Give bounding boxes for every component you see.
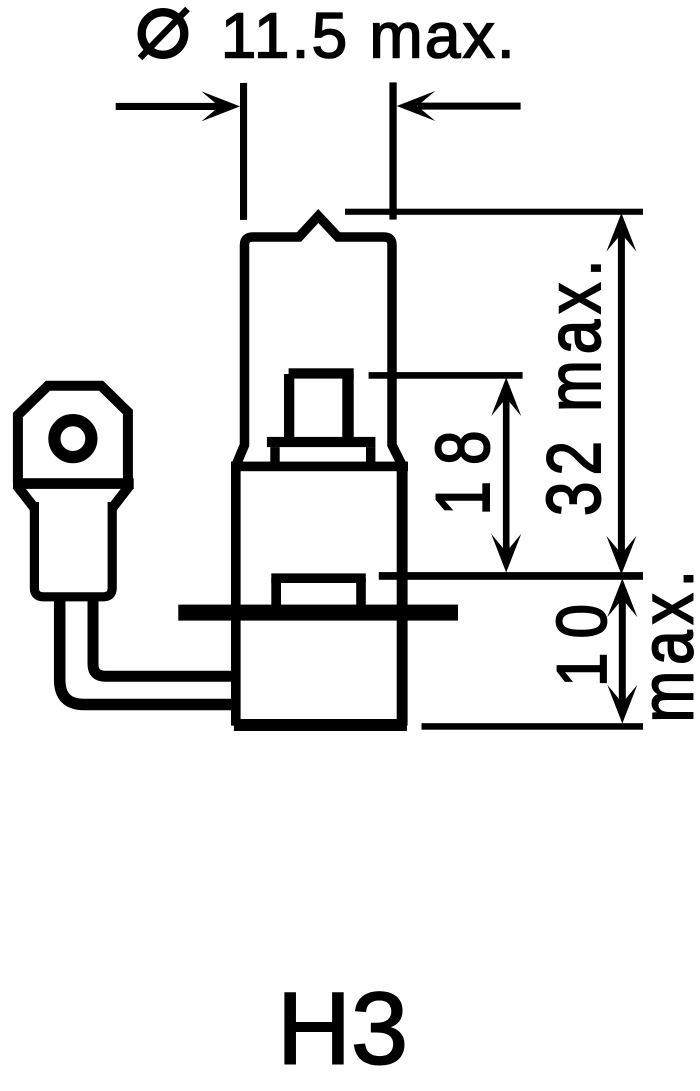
base bottom line: [234, 719, 407, 731]
svg-text:10: 10: [543, 590, 622, 687]
pedestal right side: [366, 447, 375, 463]
32 max dimension line: [606, 213, 636, 575]
wire inner line: [93, 599, 236, 676]
pedestal bar: [267, 437, 376, 447]
label 18 (rotated): [420, 415, 505, 516]
svg-text:H3: H3: [277, 971, 408, 1086]
diameter dimension left extension line: [240, 83, 247, 220]
terminal lug right bevel: [112, 485, 130, 508]
terminal lug left bevel: [17, 485, 35, 508]
bottom reference line (10 max bottom): [422, 723, 644, 730]
base left wall: [231, 462, 241, 726]
label 10 (rotated): [543, 590, 622, 687]
terminal lug divider: [13, 478, 134, 489]
glass envelope: [237, 216, 402, 464]
top reference line (32 max top): [345, 209, 643, 215]
label 32 max. (rotated): [531, 254, 616, 516]
base tab right wall: [356, 578, 366, 605]
wire outer line: [60, 599, 236, 705]
base tab top bar: [271, 573, 366, 583]
label max. (rotated, for 10): [625, 564, 700, 722]
svg-text:18: 18: [420, 415, 505, 516]
diameter label Ø symbol: [140, 9, 188, 58]
pedestal left side: [270, 447, 279, 463]
svg-text:max.: max.: [625, 564, 700, 722]
filament pinch right wall: [342, 374, 353, 438]
terminal lug crimp barrel: [34, 502, 112, 597]
filament pinch left wall: [284, 374, 294, 438]
filament pinch top bar: [289, 368, 354, 378]
base flange: [178, 605, 458, 621]
mid shared reference line (flange level): [379, 572, 643, 580]
base tab left wall: [271, 578, 281, 605]
base right wall: [397, 462, 408, 726]
diameter dimension right extension line: [389, 82, 396, 219]
svg-text:11.5 max.: 11.5 max.: [221, 0, 517, 72]
terminal lug head octagon: [18, 386, 128, 483]
diameter dimension right arrow: [397, 91, 521, 121]
base top line: [231, 462, 408, 472]
svg-text:32 max.: 32 max.: [531, 254, 616, 516]
18 dimension line: [491, 378, 521, 573]
diameter dimension left arrow: [116, 91, 240, 121]
10 dimension line: [607, 579, 637, 724]
terminal lug ring hole: [54, 420, 91, 457]
18 dimension top reference line: [369, 372, 523, 379]
